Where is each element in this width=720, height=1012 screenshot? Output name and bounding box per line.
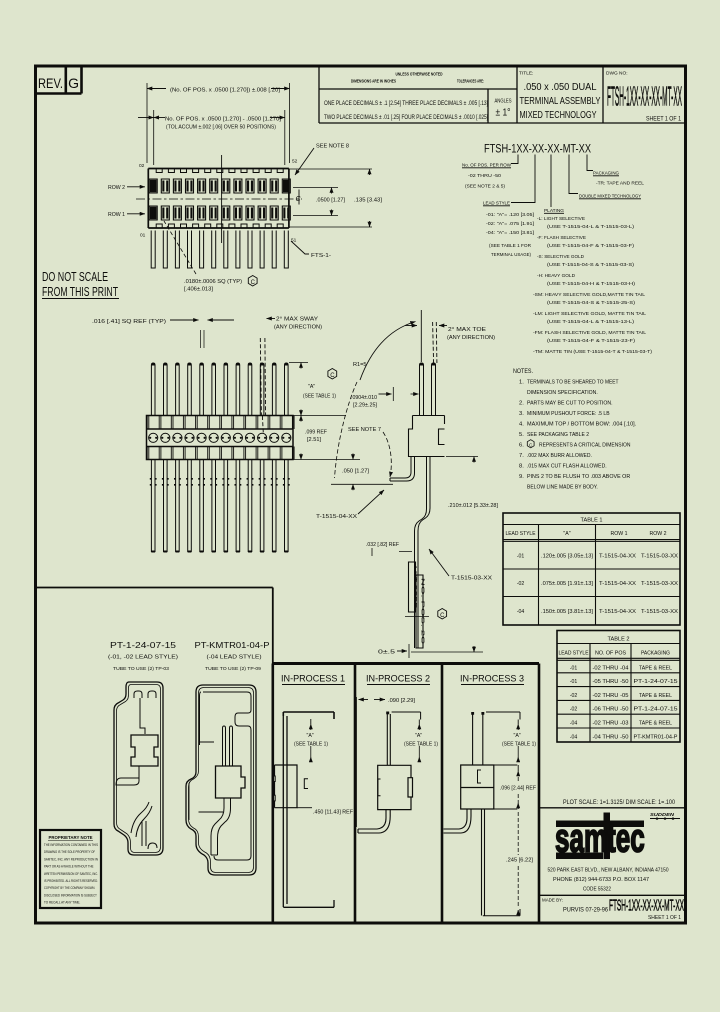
- svg-text:DO NOT SCALE: DO NOT SCALE: [42, 269, 108, 284]
- svg-text:-S: SELECTIVE GOLD: -S: SELECTIVE GOLD: [537, 254, 584, 260]
- svg-text:(TOL ACCUM ±.002 [.06] OVER 50: (TOL ACCUM ±.002 [.06] OVER 50 POSITIONS…: [166, 125, 276, 131]
- svg-text:(USE T-1515-04-H & T-1515-03-H: (USE T-1515-04-H & T-1515-03-H): [547, 281, 635, 287]
- terminal block: [216, 766, 246, 798]
- svg-text:R1=5: R1=5: [353, 362, 367, 368]
- svg-text:-02: -02: [517, 581, 525, 587]
- straight lead: [482, 809, 485, 916]
- toe dashed lines: [433, 322, 437, 363]
- body width dimension .135: [369, 169, 371, 175]
- bent lead exits left: [444, 809, 472, 833]
- revision box REV G: [36, 66, 82, 94]
- svg-text:SEE PACKAGING TABLE 2: SEE PACKAGING TABLE 2: [527, 432, 589, 438]
- block extension lines: [494, 765, 518, 809]
- side view pins: [420, 363, 436, 416]
- toe dimension arrows and text: [405, 325, 417, 327]
- tail length dimension .210: [411, 457, 483, 653]
- svg-text:THE INFORMATION CONTAINED IN T: THE INFORMATION CONTAINED IN THIS: [44, 843, 98, 847]
- svg-text:.015 MAX CUT FLASH ALLOWED.: .015 MAX CUT FLASH ALLOWED.: [527, 464, 607, 470]
- svg-text:(USE T-1515-04-F & T-1515-23-F: (USE T-1515-04-F & T-1515-23-F): [547, 338, 635, 344]
- .090 dimension: [356, 697, 358, 827]
- leader lines from part number: [511, 155, 593, 208]
- svg-text:(-04 LEAD STYLE): (-04 LEAD STYLE): [207, 655, 262, 661]
- svg-text:-L: LIGHT SELECTIVE: -L: LIGHT SELECTIVE: [537, 216, 586, 222]
- A dimension dashed: [517, 720, 519, 725]
- A dimension: [418, 720, 420, 725]
- drawing border frame: [36, 66, 686, 923]
- svg-text:C: C: [296, 196, 302, 203]
- svg-text:52: 52: [292, 159, 298, 165]
- centerline symbol: [298, 190, 300, 205]
- svg-text:-06 THRU -50: -06 THRU -50: [593, 707, 629, 713]
- svg-text:SAMTEC, INC. ANY REPRODUCTION: SAMTEC, INC. ANY REPRODUCTION IN: [44, 857, 98, 861]
- svg-text:-02 THRU -03: -02 THRU -03: [593, 721, 629, 727]
- body outline: [147, 416, 294, 460]
- overall length dimension: [147, 83, 290, 163]
- svg-text:1.: 1.: [519, 380, 524, 386]
- svg-text:-01: -01: [517, 554, 525, 560]
- lower channel curves: [131, 802, 152, 837]
- svg-text:(-01, -02 LEAD STYLE): (-01, -02 LEAD STYLE): [108, 655, 178, 661]
- svg-text:PACKAGING: PACKAGING: [641, 651, 670, 657]
- svg-text:.450 [11.43] REF: .450 [11.43] REF: [313, 810, 353, 816]
- svg-text:"A": "A": [308, 384, 315, 390]
- terminal block: [461, 765, 494, 809]
- pins lower portion: [151, 460, 288, 552]
- svg-text:TAPE & REEL: TAPE & REEL: [639, 665, 672, 671]
- svg-text:.120±.005 [3.05±.13]: .120±.005 [3.05±.13]: [541, 554, 594, 560]
- sway pin dashed: [260, 338, 265, 433]
- svg-text:0±.5: 0±.5: [378, 650, 395, 656]
- svg-text:(USE T-1515-04-L & T-1515-03-L: (USE T-1515-04-L & T-1515-03-L): [547, 224, 634, 230]
- svg-text:51: 51: [291, 238, 297, 244]
- svg-text:SEE NOTE 8: SEE NOTE 8: [316, 144, 349, 150]
- terminal pins below body: [151, 231, 288, 269]
- row 1 terminal pads: [149, 206, 290, 220]
- critical symbol: [438, 609, 447, 619]
- terminal ball sockets: [149, 433, 158, 442]
- svg-text:DIMENSION SPECIFICATION.: DIMENSION SPECIFICATION.: [527, 390, 598, 396]
- svg-text:FTSH-1XX-XX-XX-MT-XX: FTSH-1XX-XX-XX-MT-XX: [609, 898, 684, 915]
- svg-text:T-1515-04-XX: T-1515-04-XX: [599, 554, 637, 560]
- svg-text:IN-PROCESS 1: IN-PROCESS 1: [281, 674, 345, 684]
- pin square size callout with critical symbol: [164, 221, 196, 274]
- svg-text:.096 [2.44] REF: .096 [2.44] REF: [500, 786, 536, 792]
- svg-text:TAPE & REEL: TAPE & REEL: [639, 721, 672, 727]
- svg-text:.002 MAX BURR ALLOWED.: .002 MAX BURR ALLOWED.: [527, 453, 592, 459]
- svg-text:-05 THRU -50: -05 THRU -50: [593, 679, 629, 685]
- svg-text:(ANY DIRECTION): (ANY DIRECTION): [274, 325, 322, 331]
- terminal block with right tab: [378, 765, 413, 809]
- svg-text:5.: 5.: [519, 432, 524, 438]
- svg-text:PINS 2 TO BE FLUSH TO .003 ABO: PINS 2 TO BE FLUSH TO .003 ABOVE OR: [527, 474, 630, 480]
- svg-text:CODE 55322: CODE 55322: [583, 887, 611, 893]
- svg-text:C: C: [440, 613, 445, 619]
- A dimension right side: [289, 363, 346, 416]
- svg-text:.150±.005 [3.81±.13]: .150±.005 [3.81±.13]: [541, 609, 594, 615]
- svg-text:SUDDEN: SUDDEN: [650, 812, 675, 817]
- svg-text:-02 THRU -04: -02 THRU -04: [593, 665, 629, 671]
- svg-text:"A": "A": [514, 733, 521, 739]
- svg-text:-LM: LIGHT SELECTIVE GOLD, MAT: -LM: LIGHT SELECTIVE GOLD, MATTE TIN TAI…: [533, 311, 646, 317]
- svg-text:G: G: [68, 75, 79, 91]
- svg-text:PT-KMTR01-04-P: PT-KMTR01-04-P: [634, 734, 679, 740]
- do not scale note: [42, 269, 119, 299]
- svg-text:PURVIS 07-29-96: PURVIS 07-29-96: [563, 908, 609, 914]
- row pitch dimension .0500: [331, 188, 333, 194]
- svg-text:-02 THRU -05: -02 THRU -05: [593, 693, 629, 699]
- svg-text:PART OR AS A WHOLE WITHOUT THE: PART OR AS A WHOLE WITHOUT THE: [44, 865, 94, 869]
- svg-text:.0904±.010: .0904±.010: [351, 395, 377, 401]
- svg-text:.0180±.0006 SQ (TYP): .0180±.0006 SQ (TYP): [184, 279, 242, 285]
- svg-text:REPRESENTS A CRITICAL DIMENSIO: REPRESENTS A CRITICAL DIMENSION: [539, 443, 631, 449]
- svg-text:UNLESS OTHERWISE NOTED: UNLESS OTHERWISE NOTED: [396, 72, 443, 77]
- svg-text:8.: 8.: [519, 464, 524, 470]
- svg-text:MIXED TECHNOLOGY: MIXED TECHNOLOGY: [520, 110, 597, 121]
- front view: assembly with pins through body: [92, 317, 419, 553]
- tube PT-1-24-07-15 title: [108, 640, 178, 672]
- table 2: [557, 631, 680, 743]
- tube PT-KMTR01-04-P title: [195, 640, 270, 672]
- svg-text:.075±.005 [1.91±.13]: .075±.005 [1.91±.13]: [541, 581, 594, 587]
- svg-text:PARTS MAY BE CUT TO POSITION.: PARTS MAY BE CUT TO POSITION.: [527, 401, 613, 407]
- svg-text:MAXIMUM TOP / BOTTOM BOW: .004: MAXIMUM TOP / BOTTOM BOW: .004 [.10].: [527, 422, 637, 428]
- svg-text:PROPRIETARY NOTE: PROPRIETARY NOTE: [49, 835, 93, 840]
- svg-text:3.: 3.: [519, 411, 524, 417]
- .245 dimension: [517, 812, 519, 908]
- svg-text:02: 02: [139, 163, 145, 169]
- svg-text:NO. POS. 2C: NO. POS. 2C: [420, 578, 425, 644]
- svg-text:ONE PLACE DECIMALS ± .1 [2.54]: ONE PLACE DECIMALS ± .1 [2.54] THREE PLA…: [324, 100, 488, 107]
- svg-text:TUBE TO USE (2) TP-03: TUBE TO USE (2) TP-03: [113, 666, 169, 672]
- svg-text:T-1515-04-XX: T-1515-04-XX: [599, 609, 637, 615]
- svg-text:.0500 [1.27]: .0500 [1.27]: [316, 198, 345, 204]
- svg-text:DRAWING IS THE SOLE PROPERTY O: DRAWING IS THE SOLE PROPERTY OF: [44, 850, 96, 854]
- svg-text:DIMENSIONS ARE IN INCHES: DIMENSIONS ARE IN INCHES: [351, 79, 396, 84]
- svg-text:(SEE TABLE 1): (SEE TABLE 1): [404, 742, 438, 748]
- detail blowup arc: [360, 322, 416, 381]
- side view: single column terminal detail: [366, 310, 499, 658]
- svg-text:(No. OF POS. x .0500 [1.270]): (No. OF POS. x .0500 [1.270]) ±.008 [.20…: [170, 88, 280, 94]
- svg-text:MADE BY:: MADE BY:: [542, 898, 563, 903]
- svg-text:PT-1-24-07-15: PT-1-24-07-15: [634, 679, 678, 685]
- carrier strip open rectangle: [283, 712, 334, 719]
- smt foot lead: [390, 457, 415, 482]
- samtec logo: [556, 821, 644, 828]
- svg-text:.032 [.82] REF: .032 [.82] REF: [366, 542, 399, 548]
- svg-text:SHEET 1 OF 1: SHEET 1 OF 1: [646, 116, 681, 123]
- svg-text:7.: 7.: [519, 453, 524, 459]
- svg-text:(ANY DIRECTION): (ANY DIRECTION): [447, 335, 495, 341]
- svg-text:ROW 1: ROW 1: [611, 531, 628, 537]
- through lead with jog: [415, 457, 431, 649]
- tube 1 cross section outline: [114, 682, 163, 855]
- svg-text:SHEET 1 OF 1: SHEET 1 OF 1: [648, 915, 681, 921]
- svg-text:-SM: HEAVY SELECTIVE GOLD,MATT: -SM: HEAVY SELECTIVE GOLD,MATTE TIN TAIL: [533, 292, 645, 298]
- svg-text:(SEE TABLE 1): (SEE TABLE 1): [502, 742, 536, 748]
- vertical centerline: [221, 155, 223, 243]
- svg-text:-04: -04: [570, 721, 578, 727]
- svg-text:T-1515-03-XX: T-1515-03-XX: [641, 554, 679, 560]
- table 1: [503, 513, 680, 625]
- svg-text:PT-1-24-07-15: PT-1-24-07-15: [110, 640, 176, 650]
- svg-text:"A": "A": [307, 733, 314, 739]
- svg-text:TERMINALS TO BE SHEARED TO MEE: TERMINALS TO BE SHEARED TO MEET: [527, 380, 619, 386]
- proprietary note box: [40, 830, 101, 908]
- svg-text:[2.51]: [2.51]: [307, 437, 322, 443]
- svg-text:PHONE (812) 944-6733 P.O. BO: PHONE (812) 944-6733 P.O. BOX 1147: [553, 877, 649, 883]
- svg-text:NO. OF POS: NO. OF POS: [595, 651, 627, 657]
- FTS-1 series callout: [291, 241, 309, 254]
- svg-text:(USE T-1515-04-S & T-1515-03-S: (USE T-1515-04-S & T-1515-03-S): [547, 262, 634, 268]
- svg-text:FROM THIS PRINT: FROM THIS PRINT: [42, 284, 118, 299]
- svg-text:REV.: REV.: [38, 75, 63, 91]
- svg-text:SEE NOTE 7: SEE NOTE 7: [348, 427, 381, 433]
- svg-text:4.: 4.: [519, 422, 524, 428]
- notes list: [513, 369, 637, 491]
- svg-text:samtec: samtec: [555, 816, 645, 861]
- svg-text:-04: -04: [570, 734, 578, 740]
- svg-text:.210±.012 [5.33±.28]: .210±.012 [5.33±.28]: [448, 503, 499, 509]
- svg-text:NOTES.: NOTES.: [513, 369, 533, 375]
- svg-text:TO RECALL AT ANY TIME.: TO RECALL AT ANY TIME.: [44, 901, 80, 905]
- svg-text:2.: 2.: [519, 401, 524, 407]
- svg-text:FTSH-1XX-XX-XX-MT-XX: FTSH-1XX-XX-XX-MT-XX: [484, 144, 591, 156]
- terminal pins: [473, 714, 483, 765]
- svg-text:(USE T-1515-04-F & T-1515-03-F: (USE T-1515-04-F & T-1515-03-F): [547, 243, 634, 249]
- svg-text:IN-PROCESS 3: IN-PROCESS 3: [460, 674, 524, 684]
- body cross section: [409, 416, 445, 457]
- svg-text:-02: "A"= .075 [1.91]: -02: "A"= .075 [1.91]: [486, 221, 535, 227]
- svg-text:2° MAX SWAY: 2° MAX SWAY: [276, 317, 319, 323]
- svg-text:ROW 1: ROW 1: [108, 212, 125, 218]
- top edge castellation teeth: [156, 169, 283, 173]
- svg-text:TOLERANCES ARE:: TOLERANCES ARE:: [457, 79, 484, 84]
- svg-text:TWO PLACE DECIMALS ± .01 [.25]: TWO PLACE DECIMALS ± .01 [.25] FOUR PLAC…: [324, 114, 488, 121]
- svg-text:IN-PROCESS 2: IN-PROCESS 2: [366, 674, 430, 684]
- svg-text:.016 [.41] SQ REF (TYP): .016 [.41] SQ REF (TYP): [92, 319, 166, 325]
- svg-text:MINIMUM PUSHOUT FORCE: .5 LB: MINIMUM PUSHOUT FORCE: .5 LB: [527, 411, 610, 417]
- tolerance and title block: [319, 66, 686, 123]
- marking boxes on lead: [409, 562, 424, 648]
- middle terminal block: [131, 735, 158, 766]
- svg-text:T-1515-03-XX: T-1515-03-XX: [451, 576, 493, 582]
- drawing number block: [606, 71, 682, 123]
- svg-text:C: C: [251, 280, 256, 286]
- in-process 3 panel: [444, 674, 537, 916]
- svg-text:.245 [6.22]: .245 [6.22]: [506, 858, 534, 864]
- svg-text:.050 x .050 DUAL: .050 x .050 DUAL: [524, 82, 598, 93]
- svg-text:DWG NO:: DWG NO:: [606, 71, 628, 77]
- svg-text:TERMINAL ASSEMBLY: TERMINAL ASSEMBLY: [520, 96, 601, 107]
- svg-text:FTS-1-: FTS-1-: [311, 253, 331, 259]
- svg-text:[2.29±.25]: [2.29±.25]: [353, 403, 378, 409]
- svg-text:(SEE TABLE 1): (SEE TABLE 1): [294, 742, 328, 748]
- svg-text:-TR: TAPE AND REEL: -TR: TAPE AND REEL: [596, 181, 644, 187]
- .050 dimension to foot: [293, 460, 393, 485]
- svg-text:-01: -01: [570, 679, 578, 685]
- body height dimension .099: [300, 416, 302, 422]
- part number breakdown header: [462, 144, 652, 356]
- svg-text:No. OF POS. x .0500 [1.270] -: No. OF POS. x .0500 [1.270] - .0500 [1.2…: [165, 117, 281, 123]
- svg-text:LEAD STYLE: LEAD STYLE: [506, 531, 537, 537]
- svg-text:PLOT SCALE: 1=1.3125/ DIM SCAL: PLOT SCALE: 1=1.3125/ DIM SCALE: 1=.100: [563, 800, 676, 806]
- svg-text:± 1°: ± 1°: [496, 107, 511, 119]
- svg-text:TERMINAL USAGE): TERMINAL USAGE): [491, 252, 531, 258]
- svg-text:-H: HEAVY GOLD: -H: HEAVY GOLD: [537, 273, 575, 279]
- svg-text:T-1515-03-XX: T-1515-03-XX: [641, 581, 679, 587]
- svg-text:T-1515-04-XX: T-1515-04-XX: [316, 514, 358, 520]
- title text block: [519, 71, 601, 122]
- pin pair: [223, 726, 233, 766]
- right side extension lines: [289, 169, 372, 227]
- body cell dividers: [147, 416, 294, 430]
- svg-text:.090 [2.29]: .090 [2.29]: [388, 698, 416, 704]
- svg-text:TABLE 2: TABLE 2: [608, 637, 630, 643]
- svg-text:.135 [3.43]: .135 [3.43]: [354, 198, 382, 204]
- horizontal centerline: [136, 198, 302, 200]
- bottom edge castellation teeth: [156, 224, 283, 228]
- svg-text:LOT CODE: LOT CODE: [413, 566, 418, 608]
- svg-text:9.: 9.: [519, 474, 524, 480]
- svg-text:TUBE TO USE (2) TP-09: TUBE TO USE (2) TP-09: [205, 666, 261, 672]
- svg-text:T-1515-04-XX: T-1515-04-XX: [599, 581, 637, 587]
- svg-text:-04 THRU -50: -04 THRU -50: [593, 734, 629, 740]
- svg-text:DISCLOSED INFORMATION IS SUBJE: DISCLOSED INFORMATION IS SUBJECT: [44, 893, 97, 897]
- .096 dimension: [517, 765, 519, 771]
- svg-text:(USE T-1515-04-L & T-1515-13-L: (USE T-1515-04-L & T-1515-13-L): [547, 319, 634, 325]
- svg-text:ROW 2: ROW 2: [108, 185, 125, 191]
- svg-text:-02: -02: [570, 707, 578, 713]
- bent lead: [358, 810, 390, 833]
- right column plot scale and logo block: [539, 664, 686, 924]
- terminal strip: [387, 713, 390, 765]
- svg-text:520 PARK EAST BLVD., NEW ALBAN: 520 PARK EAST BLVD., NEW ALBANY, INDIANA…: [548, 868, 669, 874]
- inner top hooks: [134, 691, 156, 698]
- svg-text:ANGLES: ANGLES: [495, 99, 512, 105]
- svg-text:[.406±.013]: [.406±.013]: [184, 287, 214, 293]
- in-process panels frame: [273, 664, 540, 924]
- svg-text:"A": "A": [415, 733, 422, 739]
- svg-text:IS PROHIBITED. ALL RIGHTS RESE: IS PROHIBITED. ALL RIGHTS RESERVED.: [44, 879, 98, 883]
- svg-text:ROW 2: ROW 2: [650, 531, 667, 537]
- svg-text:.099 REF: .099 REF: [305, 430, 327, 436]
- svg-text:PT-1-24-07-15: PT-1-24-07-15: [634, 707, 678, 713]
- svg-text:BELOW LINE MADE BY BODY.: BELOW LINE MADE BY BODY.: [527, 485, 598, 491]
- A dimension: [310, 719, 312, 724]
- center to center dimension: [154, 110, 285, 165]
- top view: connector body assembly: [108, 83, 382, 293]
- centerline above pin: [420, 310, 422, 362]
- svg-text:TABLE 1: TABLE 1: [581, 518, 603, 524]
- svg-text:C: C: [330, 373, 335, 379]
- body outline: [148, 169, 289, 229]
- lead shear tick marks: [150, 479, 290, 485]
- tube packaging section divider: [36, 588, 273, 664]
- svg-text:COPYRIGHT BY THE COMPANY SHOWN: COPYRIGHT BY THE COMPANY SHOWN.: [44, 886, 95, 890]
- svg-text:(SEE TABLE 1 FOR: (SEE TABLE 1 FOR: [489, 243, 531, 249]
- pins upper portion: [151, 363, 288, 416]
- svg-text:TAPE & REEL: TAPE & REEL: [639, 693, 672, 699]
- svg-text:-01: -01: [570, 665, 578, 671]
- row 2 terminal pads: [149, 179, 290, 193]
- svg-text:PT-KMTR01-04-P: PT-KMTR01-04-P: [195, 640, 270, 650]
- svg-text:"A": "A": [563, 531, 570, 537]
- tube 2 cross section outline: [186, 685, 256, 875]
- terminal block: [275, 765, 298, 808]
- svg-text:2° MAX TOE: 2° MAX TOE: [448, 327, 487, 333]
- svg-text:-04: "A"= .150 [3.81]: -04: "A"= .150 [3.81]: [486, 230, 535, 236]
- inner top outline with right step: [203, 692, 251, 860]
- svg-text:-02 THRU -50: -02 THRU -50: [468, 173, 501, 179]
- svg-text:-02: -02: [570, 693, 578, 699]
- svg-text:(SEE TABLE 1): (SEE TABLE 1): [303, 394, 336, 400]
- svg-text:FTSH-1XX-XX-XX-MT-XX: FTSH-1XX-XX-XX-MT-XX: [607, 81, 682, 112]
- svg-text:-TM: MATTE TIN (USE T-1515-04-: -TM: MATTE TIN (USE T-1515-04-T & T-1515…: [533, 349, 652, 355]
- svg-text:WRITTEN PERMISSION OF SAMTEC,: WRITTEN PERMISSION OF SAMTEC, INC.: [44, 872, 98, 876]
- in-process 2 panel: [357, 674, 439, 834]
- in-process 1 panel: [272, 674, 353, 908]
- svg-text:-FM: FLASH SELECTIVE GOLD, MAT: -FM: FLASH SELECTIVE GOLD, MATTE TIN TAI…: [533, 330, 646, 336]
- svg-text:LEAD STYLE: LEAD STYLE: [559, 651, 590, 657]
- svg-text:(SEE NOTE 2 & 5): (SEE NOTE 2 & 5): [465, 184, 505, 190]
- svg-text:TITLE:: TITLE:: [519, 71, 533, 77]
- svg-text:-04: -04: [517, 609, 525, 615]
- svg-text:.050 [1.27]: .050 [1.27]: [342, 469, 370, 475]
- svg-text:T-1515-03-XX: T-1515-03-XX: [641, 609, 679, 615]
- svg-text:-01: "A"= .120 [3.05]: -01: "A"= .120 [3.05]: [486, 212, 535, 218]
- svg-text:-F: FLASH SELECTIVE: -F: FLASH SELECTIVE: [537, 235, 587, 241]
- lead below block: [211, 798, 231, 855]
- svg-text:(USE T-1515-04-S & T-1515-25-S: (USE T-1515-04-S & T-1515-25-S): [547, 300, 635, 306]
- svg-text:01: 01: [140, 233, 146, 239]
- svg-text:6.: 6.: [519, 443, 524, 449]
